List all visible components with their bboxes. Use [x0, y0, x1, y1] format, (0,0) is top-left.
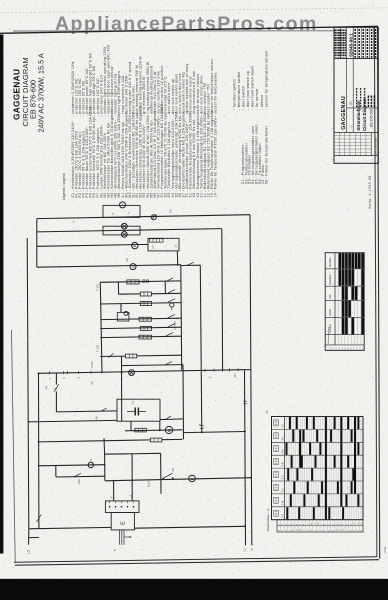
svg-text:Oberhitze: Oberhitze	[329, 257, 332, 268]
heater row E wire	[100, 327, 181, 328]
svg-text:12: 12	[345, 348, 347, 350]
junction dots W370	[38, 372, 40, 374]
switch row G left	[109, 353, 114, 357]
svg-text:Änd. Datum Name: Änd. Datum Name	[374, 137, 377, 155]
switch on W364	[165, 362, 172, 365]
page frame bottom edge double line	[14, 557, 377, 563]
svg-text:- temperature switch: - temperature switch	[237, 71, 241, 110]
switch row C	[168, 299, 175, 302]
svg-text:S2: S2	[169, 209, 173, 213]
vertical x160.6	[160, 453, 162, 494]
svg-text:7 W: 7 W	[281, 500, 284, 505]
heater row B wire	[119, 293, 141, 295]
left stub vertical joining W1-W4	[36, 219, 38, 268]
small table black bars	[339, 253, 342, 268]
wire W477	[56, 475, 105, 478]
switch on W480	[163, 473, 172, 478]
switch row A	[166, 278, 173, 281]
svg-text:5 G: 5 G	[281, 514, 284, 518]
svg-text:Grill: Grill	[329, 294, 332, 299]
resistor R1	[127, 280, 139, 284]
switch between x181 and x201	[181, 264, 200, 266]
bus x222 vertical	[221, 229, 224, 371]
svg-text:- door switch: - door switch	[242, 86, 246, 110]
motor M circle	[165, 426, 172, 433]
svg-text:Legende / Legend: Legende / Legend	[62, 173, 66, 200]
resistor R6	[139, 335, 151, 339]
svg-text:GAGGENAU: GAGGENAU	[12, 69, 22, 120]
title block top band dividers	[334, 58, 378, 60]
svg-text:- door lock switch down: - door lock switch down	[251, 66, 255, 110]
switch on W477	[74, 473, 81, 476]
wire stub W436 terminal marks	[199, 423, 201, 425]
page frame top edge	[0, 26, 378, 33]
heater left bus vertical	[100, 282, 102, 373]
small thermostat circle near bus	[170, 303, 174, 307]
wire W430 motor	[125, 430, 183, 431]
svg-text:M: M	[168, 429, 172, 432]
resistor R3	[140, 301, 151, 305]
svg-text:- for sensor: - for sensor	[255, 88, 259, 110]
svg-text:Werkseinstellung: Werkseinstellung	[327, 326, 330, 343]
relay box E	[111, 513, 134, 530]
svg-text:L1: L1	[243, 548, 247, 552]
resistor R4	[139, 317, 151, 321]
link subbox to row C	[120, 304, 122, 313]
terminal ticks right on W370	[204, 369, 206, 372]
wire from component box down	[176, 251, 179, 266]
svg-text:58 - Fühler für Temperaturfühl: 58 - Fühler für Temperaturfühler	[264, 125, 268, 184]
capacitor box C1	[117, 399, 160, 421]
svg-text:S1: S1	[265, 410, 269, 414]
wire W465 with D device	[39, 465, 105, 466]
lamp box	[103, 226, 140, 235]
svg-text:T 150: T 150	[91, 361, 94, 368]
bypass wire under cap box	[160, 418, 183, 421]
svg-text:Umluft: Umluft	[329, 309, 332, 316]
circled U timer symbol	[130, 264, 136, 270]
svg-text:N: N	[250, 548, 254, 550]
link rowA-rowB right	[164, 281, 166, 294]
svg-text:12: 12	[330, 348, 332, 350]
bus A x244.8 vertical	[245, 371, 246, 545]
wire W432	[184, 432, 246, 433]
svg-text:Circuit Diagram: Circuit Diagram	[362, 97, 367, 131]
big table long black bars	[325, 417, 327, 519]
svg-text:S 170.9: S 170.9	[174, 321, 177, 330]
title block outline	[334, 27, 378, 163]
wire W441	[39, 440, 151, 442]
svg-text:- sensor for temperature: - sensor for temperature	[214, 72, 218, 116]
lamp H1	[121, 223, 127, 229]
bus x38.5 vertical	[38, 373, 40, 528]
svg-text:3 O: 3 O	[281, 475, 284, 479]
cable arrow	[124, 536, 132, 538]
svg-text:12: 12	[339, 348, 341, 350]
svg-text:12: 12	[363, 348, 365, 350]
svg-text:- sensor: - sensor	[260, 94, 264, 110]
page frame left edge lower part	[12, 330, 16, 562]
protector switch on x38.9	[37, 515, 42, 522]
big table grid columns	[286, 417, 288, 520]
scan noise	[0, 0, 1, 1]
heater row F wire	[100, 336, 181, 337]
svg-text:N: N	[111, 497, 114, 499]
resistor R2	[140, 292, 151, 296]
wire W480 to F and N bus	[105, 478, 252, 481]
wire W3 to E	[37, 244, 148, 246]
wire W411	[56, 411, 117, 412]
resistor on W430	[135, 428, 147, 432]
wire W2 lamps	[37, 229, 222, 232]
circled device on W465	[88, 462, 93, 467]
svg-text:L17: L17	[152, 245, 155, 250]
svg-text:12: 12	[336, 348, 338, 350]
vertical x56.4 with protector break	[55, 373, 57, 385]
terminal ticks left on W370	[49, 371, 51, 374]
wire W1 top main	[37, 215, 250, 219]
thermostat contact S2 circle	[151, 215, 156, 220]
small cam switch table	[325, 253, 364, 351]
svg-text:- door lock switch up: - door lock switch up	[246, 71, 250, 110]
svg-text:14 - Fühler für Temperatur PT5: 14 - Fühler für Temperatur PT500 220-240…	[214, 116, 218, 198]
vertical x183	[182, 365, 185, 440]
svg-text:3 D: 3 D	[281, 437, 284, 441]
bus x201 vertical	[200, 265, 202, 432]
switch row E	[168, 324, 175, 327]
component box with resistor R7	[148, 238, 179, 251]
switch row D	[168, 314, 175, 317]
bottom main wire W370	[39, 370, 244, 374]
switch on W411	[101, 408, 107, 411]
wire W364	[122, 365, 183, 366]
lamp H2	[121, 232, 127, 238]
heater row A wire	[100, 281, 181, 282]
svg-text:12: 12	[351, 348, 353, 350]
title block top band fake text scribbles	[334, 30, 336, 58]
scanner black bottom strip	[0, 579, 388, 600]
big table bottom label strip	[277, 520, 363, 532]
cap box feeds down	[130, 421, 132, 431]
watermark underline	[13, 30, 336, 32]
svg-text:S17: S17	[234, 372, 237, 377]
terminal strip X1	[105, 501, 139, 513]
svg-text:12: 12	[360, 348, 362, 350]
title block middle cells	[346, 107, 378, 109]
resistor R8 row G	[126, 354, 137, 358]
svg-text:Stromlaufplan: Stromlaufplan	[356, 100, 361, 131]
scanner black left edge strip	[0, 35, 3, 554]
vertical x104.6	[104, 454, 106, 481]
lamp on W370	[129, 370, 135, 376]
big table row labels	[274, 420, 279, 426]
svg-text:Schalterstellung 1 - 12: Schalterstellung 1 - 12	[267, 508, 270, 532]
bus x181 vertical	[180, 265, 183, 370]
wire W528 left	[29, 527, 111, 528]
svg-text:5C: 5C	[91, 381, 94, 384]
svg-text:12: 12	[354, 348, 356, 350]
svg-text:3 C: 3 C	[281, 424, 284, 428]
svg-text:52645-90.1: 52645-90.1	[349, 33, 354, 57]
svg-text:N1: N1	[125, 257, 129, 261]
wire W454	[105, 452, 161, 455]
svg-text:· · · · · · · · · ·: · · · · · · · · · ·	[336, 159, 354, 163]
timer clock symbol	[120, 202, 126, 208]
drop x55.8	[55, 466, 57, 477]
fan motor F circle	[189, 475, 196, 482]
svg-text:2 A: 2 A	[281, 488, 284, 492]
wire W421 from L2	[29, 420, 117, 422]
svg-text:2x1,5: 2x1,5	[148, 480, 151, 487]
title block revision grid	[334, 131, 378, 133]
drops to terminal strip	[113, 481, 115, 501]
svg-text:4 B: 4 B	[281, 449, 284, 453]
heater row D wire	[100, 318, 181, 319]
svg-text:4-19: 4-19	[383, 547, 387, 553]
vertical x121.5	[121, 356, 123, 422]
svg-text:T 175: T 175	[96, 284, 100, 291]
wire W528 right	[134, 526, 245, 528]
svg-text:5 B: 5 B	[281, 462, 284, 466]
capacitor C1 plates	[134, 408, 136, 416]
svg-text:12: 12	[357, 348, 359, 350]
link rowA-rowB left	[117, 282, 119, 294]
svg-text:Kaba. 2.1399.98: Kaba. 2.1399.98	[368, 175, 372, 208]
svg-text:- sensor for temperature senso: - sensor for temperature sensor	[264, 50, 268, 110]
svg-text:S/W: S/W	[78, 479, 81, 484]
big table short black bars	[289, 417, 291, 429]
svg-text:12: 12	[342, 348, 344, 350]
svg-text:C1: C1	[131, 401, 135, 405]
page frame right edge double line	[374, 27, 377, 557]
resistor R5	[140, 326, 151, 330]
plug marks on bus x201	[200, 425, 204, 427]
title block small approval scribbles	[356, 88, 358, 107]
svg-text:101: 101	[350, 101, 353, 106]
svg-text:Unterhitze: Unterhitze	[329, 274, 332, 285]
klixon sub box	[117, 312, 129, 321]
title block top band mini row dividers	[334, 33, 347, 35]
svg-text:EB 876-600: EB 876-600	[370, 108, 374, 127]
svg-text:240V AC 3700W, 15.5 A: 240V AC 3700W, 15.5 A	[37, 53, 46, 132]
small loop near L2 bottom	[29, 536, 39, 538]
L2 bus vertical	[27, 238, 29, 529]
svg-text:12: 12	[333, 348, 335, 350]
small table grid columns	[337, 253, 339, 345]
svg-text:Y: Y	[127, 212, 131, 214]
plug marks bus A	[243, 400, 247, 402]
timer box N1	[103, 205, 140, 217]
svg-text:12: 12	[348, 348, 350, 350]
klixon circle	[124, 311, 128, 315]
svg-text:GAGGENAU: GAGGENAU	[341, 96, 347, 130]
heater row G wire	[100, 355, 125, 357]
svg-text:F: F	[191, 478, 195, 480]
svg-text:N: N	[72, 221, 76, 223]
wire W4 to U	[37, 265, 181, 268]
svg-text:T 120: T 120	[96, 345, 100, 352]
svg-text:4B: 4B	[96, 416, 99, 419]
right bus N vertical	[250, 215, 252, 546]
svg-text:- function switch: - function switch	[233, 79, 237, 110]
contact squares row A	[143, 280, 145, 282]
resistor on W441	[150, 438, 162, 442]
cable lines below relay	[119, 530, 121, 545]
heater row C wire	[100, 303, 181, 304]
top dotted artifact line	[0, 8, 388, 13]
circled E component	[132, 242, 138, 248]
switch row B	[168, 290, 175, 293]
switch row F	[166, 333, 173, 336]
svg-text:L2: L2	[26, 550, 30, 554]
big cam switch table	[272, 417, 364, 520]
